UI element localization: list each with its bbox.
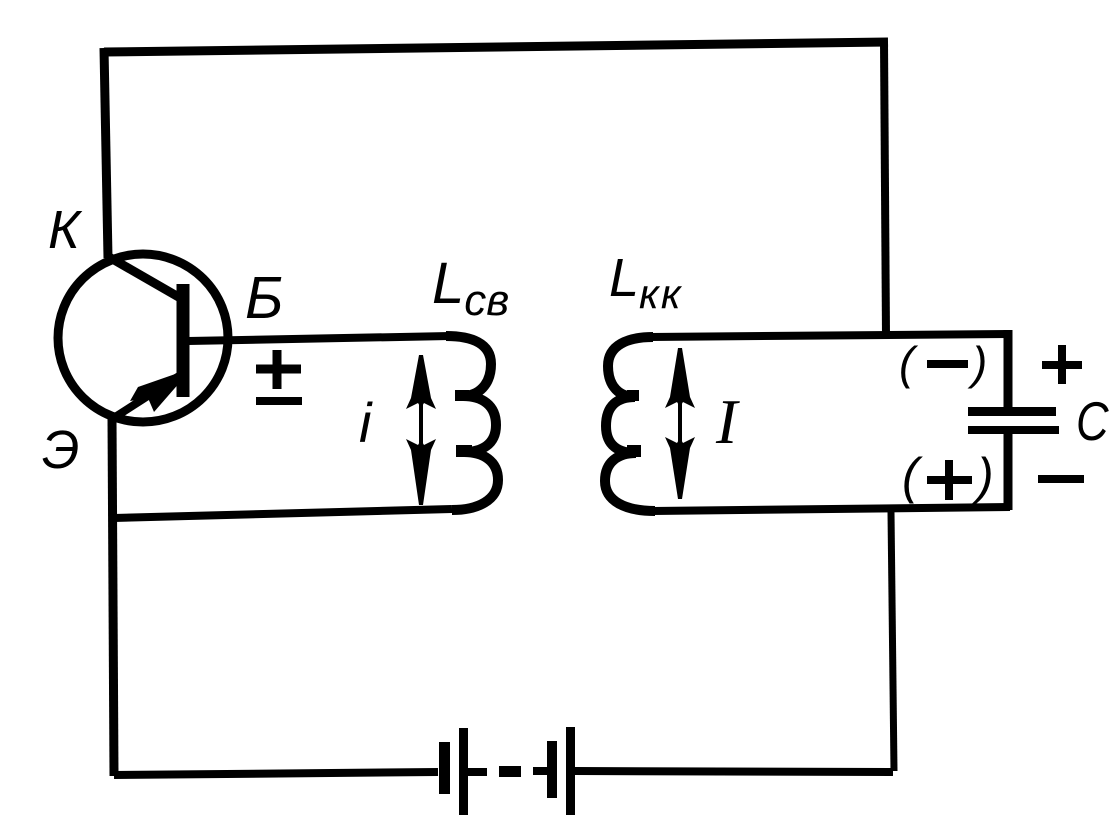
svg-text:(: ( — [899, 337, 919, 389]
svg-text:): ) — [972, 448, 994, 504]
svg-text:Э: Э — [42, 420, 79, 480]
svg-text:I: I — [715, 386, 740, 457]
svg-text:(: ( — [902, 448, 923, 504]
svg-text:C: C — [1076, 390, 1109, 452]
svg-text:i: i — [359, 391, 373, 454]
svg-text:): ) — [967, 337, 987, 389]
svg-text:Lсв: Lсв — [432, 251, 509, 325]
svg-text:К: К — [48, 200, 83, 260]
svg-text:Б: Б — [245, 265, 283, 331]
svg-text:Lкк: Lкк — [609, 248, 683, 317]
